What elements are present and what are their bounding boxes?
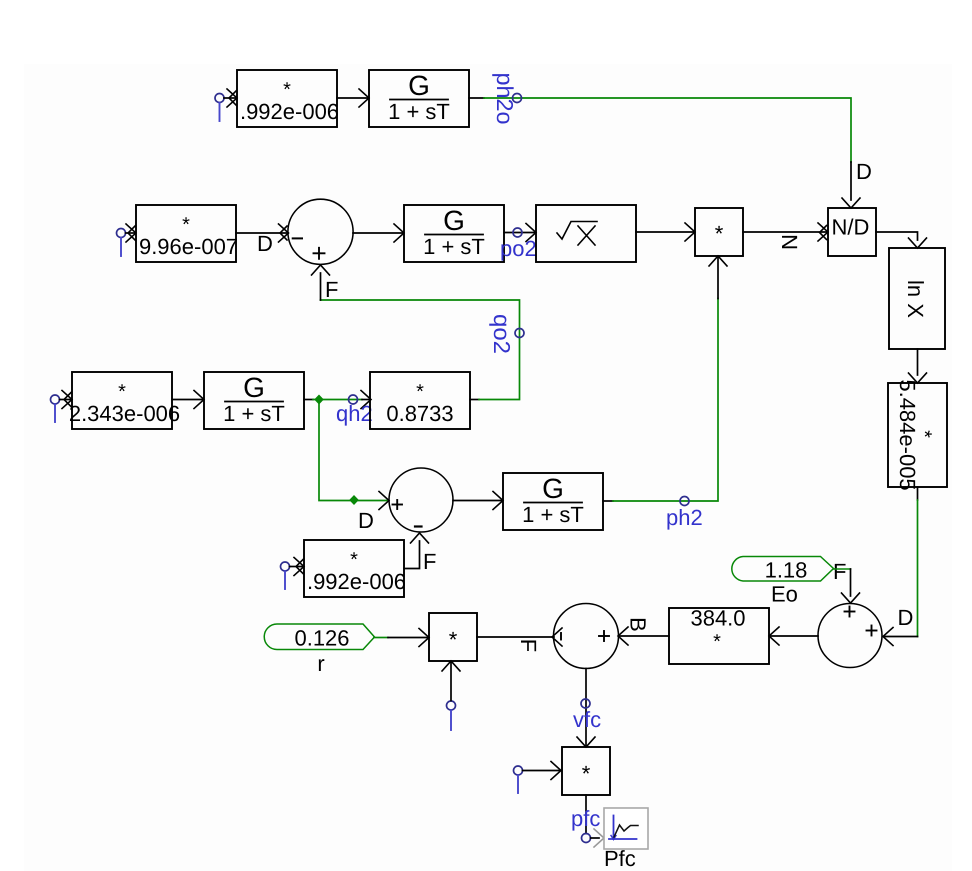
wire Eo to S2 top xyxy=(834,569,860,603)
svg-text:pfc: pfc xyxy=(571,806,600,831)
wire D drop into N/D xyxy=(842,162,860,208)
constant capsule Eo 1.18 xyxy=(732,557,834,607)
sqrt block xyxy=(536,205,636,262)
svg-text:1 + sT: 1 + sT xyxy=(423,234,485,259)
svg-text:*: * xyxy=(350,549,358,571)
svg-text:1 + sT: 1 + sT xyxy=(388,99,450,124)
node input I (row3) xyxy=(51,395,60,422)
wire M5 to S4 F input xyxy=(404,533,429,569)
svg-text:.992e-006: .992e-006 xyxy=(240,99,339,124)
svg-text:G: G xyxy=(408,70,430,101)
vertical multiplier 5.484e-005 xyxy=(888,379,947,490)
wire S2 to 384 block xyxy=(769,627,818,645)
wire S1 to G2 xyxy=(353,224,404,242)
multiplier B2 xyxy=(562,747,610,795)
svg-text:B: B xyxy=(626,617,651,632)
node po2 xyxy=(513,228,522,237)
node input I (B1 bottom) xyxy=(447,701,456,730)
svg-text:F: F xyxy=(833,559,846,584)
transfer function G4 xyxy=(503,473,603,530)
wire B3 to N/D xyxy=(743,223,828,241)
wire 384 block to S3 xyxy=(618,627,669,645)
svg-text:1 + sT: 1 + sT xyxy=(223,401,285,426)
wire vertical multiplier to S2 (D input) xyxy=(883,487,918,646)
wire qh2 branch down to S4 xyxy=(319,400,389,510)
node vfc xyxy=(581,699,590,708)
svg-text:*: * xyxy=(713,631,721,653)
svg-text:D: D xyxy=(856,159,872,184)
svg-text:2.343e-006: 2.343e-006 xyxy=(69,401,180,426)
wire M3 to G3 xyxy=(172,391,204,409)
node input I (row5) xyxy=(281,562,290,589)
wire ph2o green to N/D column xyxy=(484,98,851,162)
wire N/D to ln X xyxy=(876,232,927,248)
constant capsule r 0.126 xyxy=(264,624,374,676)
svg-text:F: F xyxy=(325,277,338,302)
wire S4 to G4 xyxy=(453,492,503,510)
multiplier M4 0.8733 xyxy=(370,372,470,429)
svg-text:*: * xyxy=(715,221,724,246)
divider block N/D xyxy=(828,208,876,256)
svg-text:D: D xyxy=(358,508,374,533)
svg-text:F: F xyxy=(423,549,436,574)
wire input to multiplier M2 xyxy=(126,224,137,242)
svg-text:*: * xyxy=(416,381,424,403)
node qh2 xyxy=(349,395,358,404)
multiplier B3 xyxy=(695,208,743,256)
svg-text:ln X: ln X xyxy=(903,280,928,318)
svg-text:N/D: N/D xyxy=(832,215,870,240)
svg-text:G: G xyxy=(443,205,465,236)
wire input node to B2 left xyxy=(523,762,562,780)
multiplier 384.0 xyxy=(669,606,769,665)
svg-text:F: F xyxy=(516,639,541,652)
wire sqrt to multiplier B3 xyxy=(636,223,695,241)
svg-text:.992e-006: .992e-006 xyxy=(307,569,406,594)
wire pfc to Pfc plot xyxy=(591,829,605,847)
svg-text:384.0: 384.0 xyxy=(690,606,745,631)
wire input to multiplier M3 xyxy=(60,391,73,409)
junction diamond qh2 xyxy=(314,395,324,405)
transfer function G2 xyxy=(404,205,504,262)
wire M1 to G1 xyxy=(337,89,369,107)
svg-text:po2: po2 xyxy=(500,236,537,261)
svg-text:D: D xyxy=(898,605,914,630)
svg-text:qh2: qh2 xyxy=(336,401,373,426)
node pfc xyxy=(582,834,591,843)
svg-text:D: D xyxy=(257,231,273,256)
svg-text:N: N xyxy=(777,234,802,250)
wire G1 output (black stub) xyxy=(469,97,484,99)
wire input node to B1 bottom xyxy=(442,661,460,701)
node input I (row1) xyxy=(215,94,224,122)
svg-text:*: * xyxy=(913,430,935,438)
wire G3 output to 0.8733 (green with junction) xyxy=(304,391,371,409)
svg-text:1 + sT: 1 + sT xyxy=(522,502,584,527)
svg-text:0.126: 0.126 xyxy=(294,626,349,651)
multiplier B1 xyxy=(429,613,477,661)
multiplier M3 2.343e-006 xyxy=(69,372,180,429)
multiplier M1 .992e-006 xyxy=(237,70,339,127)
wire G4 output ph2 up to B3 xyxy=(603,256,727,501)
node ph2 xyxy=(680,497,689,506)
wire B1 to S3 xyxy=(477,628,562,646)
svg-text:9.96e-007: 9.96e-007 xyxy=(139,234,238,259)
summing junction S4 xyxy=(389,468,453,532)
summing junction S3 xyxy=(554,604,619,669)
svg-text:0.8733: 0.8733 xyxy=(386,401,453,426)
wire input to multiplier M1 xyxy=(224,89,237,107)
svg-text:*: * xyxy=(283,79,291,101)
transfer function G1 xyxy=(369,70,469,127)
wire G2 to sqrt xyxy=(504,224,536,242)
svg-text:G: G xyxy=(542,473,564,504)
summing junction S2 xyxy=(818,604,882,668)
svg-text:*: * xyxy=(449,627,458,652)
multiplier M5 .992e-006 xyxy=(304,540,406,597)
wire M2 to summing junction S1 xyxy=(236,224,289,242)
wire input to multiplier M5 xyxy=(290,558,305,576)
node input I (B2 left) xyxy=(514,766,523,793)
transfer function G3 xyxy=(204,372,304,429)
wire S3 output down to vfc to B2 xyxy=(577,669,595,748)
ln X block xyxy=(889,248,945,349)
svg-text:vfc: vfc xyxy=(573,707,601,732)
svg-text:r: r xyxy=(317,651,324,676)
summing junction S1 xyxy=(288,199,353,264)
node input I (row2) xyxy=(117,229,126,257)
wire ln X to vertical multiplier xyxy=(909,349,927,383)
plot block Pfc xyxy=(604,808,648,871)
svg-text:G: G xyxy=(243,372,265,403)
multiplier M2 9.96e-007 xyxy=(136,205,238,262)
svg-text:1.18: 1.18 xyxy=(765,558,808,583)
wire B2 output down to pfc xyxy=(585,795,587,834)
svg-text:*: * xyxy=(182,214,190,236)
svg-text:*: * xyxy=(582,761,591,786)
wire M4 to qo2 to S1 F input xyxy=(312,265,520,400)
wire r to multiplier B1 xyxy=(374,629,429,647)
svg-text:Eo: Eo xyxy=(771,582,798,607)
svg-text:qo2: qo2 xyxy=(489,314,515,354)
svg-text:ph2: ph2 xyxy=(666,505,703,530)
node qo2 xyxy=(515,329,524,338)
junction diamond row4 xyxy=(349,495,359,505)
node ph2o xyxy=(513,94,522,103)
svg-text:Pfc: Pfc xyxy=(604,846,636,871)
svg-text:*: * xyxy=(118,381,126,403)
